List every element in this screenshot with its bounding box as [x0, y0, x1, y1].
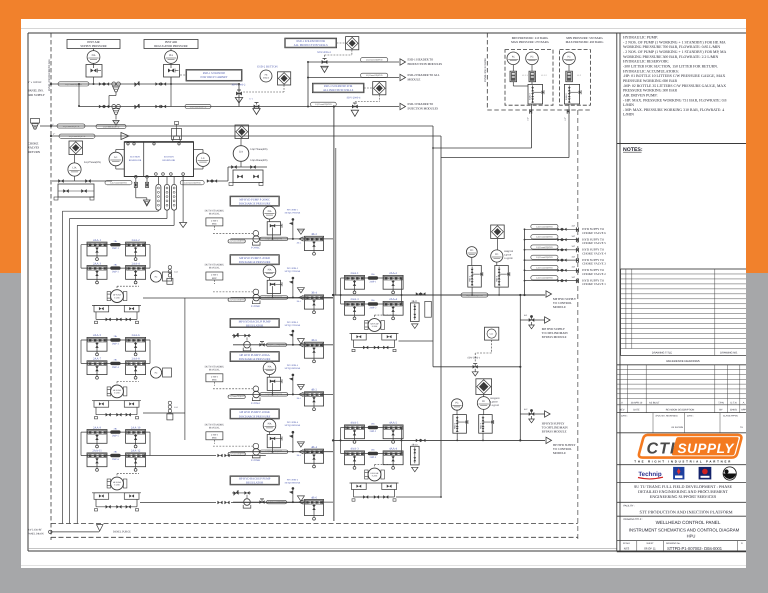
svg-text:L2(25mmOD)HYD: L2(25mmOD)HYD	[268, 501, 285, 504]
svg-text:3/4": 3/4"	[572, 225, 576, 228]
svg-text:CHOKE VALVE 1: CHOKE VALVE 1	[582, 282, 606, 286]
svg-text:REFERENCE DRAWINGS: REFERENCE DRAWINGS	[666, 359, 699, 363]
svg-text:AS SHOWN: AS SHOWN	[671, 426, 683, 429]
svg-text:REGULATOR: REGULATOR	[246, 323, 263, 327]
svg-text:L/MIN: L/MIN	[623, 113, 634, 117]
svg-text:2B-1: 2B-1	[297, 241, 301, 244]
svg-text:LL@520: LL@520	[491, 404, 500, 407]
svg-text:RETURN: RETURN	[28, 150, 41, 154]
svg-text:HYDRAULIC ACCUMULATORS:: HYDRAULIC ACCUMULATORS:	[623, 69, 679, 73]
svg-text:PANEL ENCLOSURE: PANEL ENCLOSURE	[484, 58, 487, 82]
svg-text:ESD-1 SOLENOID: ESD-1 SOLENOID	[203, 72, 225, 75]
svg-text:MODULE: MODULE	[408, 77, 421, 81]
svg-text:C4-1: C4-1	[174, 270, 178, 273]
svg-text:2Rs: 2Rs	[114, 263, 118, 266]
svg-text:MANUAL: MANUAL	[209, 213, 220, 216]
svg-text:REVISION DESCRIPTION: REVISION DESCRIPTION	[666, 409, 695, 412]
svg-text:2Rs: 2Rs	[114, 451, 118, 454]
svg-text:L-HS-2: L-HS-2	[211, 274, 219, 277]
svg-text:2AA-4: 2AA-4	[132, 261, 141, 265]
svg-text:L2(25mmOD)HYD: L2(25mmOD)HYD	[110, 182, 127, 185]
svg-text:2Rs: 2Rs	[371, 299, 375, 302]
svg-text:MANUAL: MANUAL	[209, 368, 220, 371]
svg-text:WELLHEAD CONTROL PANEL: WELLHEAD CONTROL PANEL	[656, 520, 721, 525]
svg-text:NTS: NTS	[624, 547, 630, 551]
svg-text:PSV-2006-2: PSV-2006-2	[287, 267, 299, 270]
svg-text:HYDRAULIC PUMP:: HYDRAULIC PUMP:	[623, 36, 658, 40]
svg-text:ESD-2 BUTTON: ESD-2 BUTTON	[257, 64, 278, 68]
svg-text:CLASS APPVD: CLASS APPVD	[723, 415, 738, 418]
svg-text:L2(25mmOD)HYD: L2(25mmOD)HYD	[366, 74, 383, 77]
svg-text:RESERVOIR: RESERVOIR	[129, 159, 142, 162]
svg-text:MAX PRESSURE: 270 BARG: MAX PRESSURE: 270 BARG	[511, 40, 550, 44]
svg-text:L6(140mm(ED): L6(140mm(ED)	[251, 159, 268, 162]
svg-text:2AA-1: 2AA-1	[93, 238, 102, 242]
svg-text:WORKING PRESSURE 700 BAR, FLOW: WORKING PRESSURE 700 BAR, FLOWRATE: 0.85…	[623, 45, 720, 49]
svg-text:SUPPLY: SUPPLY	[678, 441, 736, 456]
svg-text:BLK-3: BLK-3	[529, 92, 532, 99]
svg-text:PIA: PIA	[169, 54, 173, 57]
svg-text:2Rs: 2Rs	[114, 427, 118, 430]
svg-text:FACILITY :: FACILITY :	[624, 504, 636, 507]
svg-text:3/4": 3/4"	[572, 255, 576, 258]
svg-text:4AA-2: 4AA-2	[389, 421, 398, 425]
svg-text:PG: PG	[482, 400, 485, 403]
svg-text:L2(25mmOD)HYD: L2(25mmOD)HYD	[228, 240, 245, 243]
svg-text:SET@ 690 BAR: SET@ 690 BAR	[285, 481, 301, 484]
svg-text:2AA-12: 2AA-12	[131, 449, 141, 453]
svg-text:2AA-9: 2AA-9	[93, 425, 102, 429]
svg-text:SHEET: SHEET	[646, 542, 654, 545]
svg-text:T.P.N: T.P.N	[718, 402, 724, 405]
svg-text:PSV-2006-4: PSV-2006-4	[287, 478, 299, 481]
svg-text:HYDRAULIC RESERVOIR:: HYDRAULIC RESERVOIR:	[623, 60, 669, 64]
svg-text:CHOKE VALVE 6: CHOKE VALVE 6	[582, 231, 606, 235]
svg-text:DRAWING TITLE :: DRAWING TITLE :	[624, 518, 644, 521]
svg-text:DRAWING NO.: DRAWING NO.	[720, 351, 738, 354]
svg-text:L-HS-2: L-HS-2	[211, 433, 219, 436]
svg-text:2MP-1: 2MP-1	[369, 281, 377, 284]
svg-text:CHK'D: CHK'D	[730, 409, 738, 412]
svg-text:PG: PG	[567, 56, 570, 59]
svg-text:PANEL PURGE: PANEL PURGE	[113, 531, 131, 534]
svg-text:AIR SUPPLY: AIR SUPPLY	[28, 93, 46, 97]
svg-text:BYPASS MODULE: BYPASS MODULE	[542, 335, 567, 339]
svg-text:3B-2: 3B-2	[311, 232, 317, 236]
svg-text:- 2 NOS. OF PUMP (1 WORKING +: - 2 NOS. OF PUMP (1 WORKING + 1 STANDBY)…	[623, 50, 727, 54]
svg-text:2AA-5: 2AA-5	[93, 333, 102, 337]
svg-text:HPU: HPU	[687, 533, 696, 538]
svg-text:P-2006A: P-2006A	[251, 402, 260, 405]
svg-text:BLK-5: BLK-5	[565, 92, 568, 99]
svg-text:2HP-3: 2HP-3	[370, 456, 377, 459]
svg-text:INJECTION MODULES: INJECTION MODULES	[408, 106, 439, 110]
svg-text:PIA: PIA	[268, 365, 272, 368]
svg-text:3/4": 3/4"	[572, 266, 576, 269]
svg-text:BYPASS MODULE: BYPASS MODULE	[542, 430, 567, 434]
svg-text:SUPPLY PRESSURE: SUPPLY PRESSURE	[80, 44, 107, 48]
svg-text:L2(25mmOD)HYD: L2(25mmOD)HYD	[228, 395, 245, 398]
svg-text:TT-1-2: TT-1-2	[541, 74, 547, 77]
svg-text:MODULE: MODULE	[553, 305, 566, 309]
svg-text:CHOKE VALVE 2: CHOKE VALVE 2	[582, 272, 606, 276]
svg-text:P-2006: P-2006	[114, 392, 120, 395]
svg-text:3/4": 3/4"	[572, 235, 576, 238]
svg-text:LG: LG	[114, 156, 117, 159]
svg-text:DRAWING No.: DRAWING No.	[666, 542, 681, 545]
svg-text:ALL PRODUCTION WELLS: ALL PRODUCTION WELLS	[294, 44, 328, 47]
svg-text:2MP-6: 2MP-6	[112, 458, 120, 461]
svg-text:L2(25mmOD)HYD: L2(25mmOD)HYD	[228, 453, 245, 456]
svg-text:(PDC NO. REVIEWED: (PDC NO. REVIEWED	[656, 415, 679, 418]
svg-text:P-2006: P-2006	[114, 296, 120, 299]
svg-text:1/2": 1/2"	[527, 117, 530, 121]
svg-text:ESD-1 SOLENOID FOR: ESD-1 SOLENOID FOR	[296, 40, 325, 43]
svg-text:P-2006B: P-2006B	[251, 459, 260, 462]
svg-text:L2(25mmOD)HYD: L2(25mmOD)HYD	[268, 343, 285, 346]
svg-text:PIA: PIA	[92, 54, 96, 57]
svg-text:2Rs: 2Rs	[371, 273, 375, 276]
svg-text:2AA-4: 2AA-4	[389, 297, 398, 301]
svg-text:TH: TH	[740, 426, 743, 429]
svg-text:DISCHARGE PRESSURE: DISCHARGE PRESSURE	[239, 260, 271, 264]
svg-text:L2(25mmOD)HYD: L2(25mmOD)HYD	[315, 103, 332, 106]
svg-text:SUCTION: SUCTION	[164, 156, 174, 159]
svg-text:2MP-2: 2MP-2	[369, 307, 377, 310]
svg-text:L6(175mm(ED): L6(175mm(ED)	[251, 148, 268, 151]
svg-text:2Rs: 2Rs	[114, 240, 118, 243]
svg-text:MP PUMP: MP PUMP	[113, 389, 121, 392]
svg-text:PRODUCTION MODULES: PRODUCTION MODULES	[408, 62, 443, 66]
svg-text:7SK-7: 7SK-7	[479, 422, 482, 429]
svg-text:2AA-8: 2AA-8	[132, 357, 141, 361]
svg-text:2Rs: 2Rs	[371, 449, 375, 452]
svg-text:2AA-3: 2AA-3	[350, 297, 359, 301]
svg-text:4B-10: 4B-10	[412, 443, 419, 446]
svg-text:PSV-2006-5: PSV-2006-5	[287, 364, 299, 367]
svg-text:L2(25mmOD)HYD: L2(25mmOD)HYD	[536, 266, 553, 269]
svg-text:2AA-6: 2AA-6	[132, 333, 141, 337]
svg-text:SET@ 270 BAR: SET@ 270 BAR	[285, 324, 301, 327]
svg-text:LIA: LIA	[73, 167, 77, 170]
svg-text:REV: REV	[620, 409, 625, 412]
svg-text:2AA-2: 2AA-2	[132, 238, 141, 242]
svg-text:PIA: PIA	[268, 210, 272, 213]
svg-text:TT-2: TT-2	[577, 74, 581, 77]
svg-text:CTI: CTI	[647, 441, 676, 458]
svg-text:SET@ 270 BAR: SET@ 270 BAR	[285, 211, 301, 214]
svg-text:LL@200: LL@200	[504, 257, 513, 260]
svg-text:MCC: MCC	[212, 437, 218, 440]
svg-text:-MP: 02 BOTTLE 35 LITTERS C/W: -MP: 02 BOTTLE 35 LITTERS C/W PRESSURE G…	[623, 84, 726, 88]
svg-text:SDV-2006-1: SDV-2006-1	[467, 357, 480, 360]
svg-text:DATE :: DATE :	[687, 415, 694, 418]
svg-text:3B-11: 3B-11	[412, 300, 419, 303]
svg-text:HP PUMP: HP PUMP	[371, 472, 379, 475]
svg-text:PG: PG	[155, 276, 158, 279]
svg-text:BY: BY	[719, 409, 723, 412]
svg-text:2HP-2: 2HP-2	[370, 430, 377, 433]
svg-text:SET@ 270 BAR: SET@ 270 BAR	[285, 270, 301, 273]
svg-text:L2(25mmOD)HYD: L2(25mmOD)HYD	[266, 393, 283, 396]
svg-text:1/2": 1/2"	[564, 117, 567, 121]
svg-text:SET@ 690 BAR: SET@ 690 BAR	[285, 367, 301, 370]
svg-text:PSV-2006-1: PSV-2006-1	[287, 208, 299, 211]
svg-text:MANUAL: MANUAL	[209, 267, 220, 270]
svg-text:2Rs: 2Rs	[114, 359, 118, 362]
svg-text:D.T.N: D.T.N	[731, 402, 737, 405]
svg-text:PG: PG	[512, 56, 515, 59]
svg-text:SDV-2006-3: SDV-2006-3	[317, 51, 331, 54]
svg-text:L-HS-2: L-HS-2	[211, 219, 219, 222]
svg-text:PSV-2006-3: PSV-2006-3	[287, 321, 299, 324]
svg-text:3/4": 3/4"	[572, 276, 576, 279]
svg-text:7SK-6: 7SK-6	[454, 422, 457, 429]
svg-text:ESD-3 SOLENOID FOR: ESD-3 SOLENOID FOR	[324, 85, 353, 88]
svg-text:L2(25mmOD)HYD: L2(25mmOD)HYD	[266, 296, 283, 299]
svg-text:LIA: LIA	[239, 151, 243, 154]
svg-text:7SK-5: 7SK-5	[495, 275, 498, 282]
svg-text:PRESSURE WORKING 690 BAR: PRESSURE WORKING 690 BAR	[623, 79, 678, 83]
svg-text:L2(25mmOD)HYD: L2(25mmOD)HYD	[536, 256, 553, 259]
svg-text:DRAWING TITLE: DRAWING TITLE	[652, 351, 672, 354]
svg-text:-HP: 01 BOTTLE 10 LITTERS C/W: -HP: 01 BOTTLE 10 LITTERS C/W PRESSURE G…	[623, 74, 726, 78]
svg-text:CHOKE VALVE 4: CHOKE VALVE 4	[582, 251, 606, 255]
svg-text:1": 1"	[53, 133, 55, 136]
svg-text:L2(25mmOD)HYD: L2(25mmOD)HYD	[266, 450, 283, 453]
svg-text:AS BUILT: AS BUILT	[649, 402, 660, 405]
svg-text:CHOKE VALVE 5: CHOKE VALVE 5	[582, 241, 606, 245]
svg-text:3/4": 3/4"	[572, 245, 576, 248]
svg-text:28 APR 10: 28 APR 10	[631, 402, 643, 405]
svg-text:L2(25mmOD)HYD: L2(25mmOD)HYD	[63, 125, 80, 128]
svg-text:SCALE: SCALE	[623, 542, 631, 545]
svg-text:4AA-4: 4AA-4	[389, 447, 398, 451]
svg-text:3B-6: 3B-6	[311, 338, 317, 342]
svg-text:L2(25mmOD)HYD: L2(25mmOD)HYD	[69, 135, 86, 138]
svg-text:PIA: PIA	[268, 269, 272, 272]
svg-text:APP: APP	[741, 409, 746, 412]
svg-text:2AA-7: 2AA-7	[93, 357, 102, 361]
svg-text:TT-1-1: TT-1-1	[522, 74, 528, 77]
svg-text:R-1: R-1	[524, 314, 527, 317]
svg-text:DATE :: DATE :	[621, 415, 628, 418]
svg-text:MCC: MCC	[212, 379, 218, 382]
svg-text:2B-1: 2B-1	[297, 397, 301, 400]
svg-text:L@530: L@530	[491, 401, 499, 404]
svg-text:PG: PG	[495, 253, 498, 256]
svg-text:P-2006D: P-2006D	[251, 305, 260, 308]
svg-text:DISCHARGE PRESSURE: DISCHARGE PRESSURE	[239, 202, 271, 206]
svg-text:3/4"L1500 RF: 3/4"L1500 RF	[28, 529, 42, 532]
svg-text:2MP-4: 2MP-4	[112, 366, 120, 369]
svg-text:L/MIN: L/MIN	[623, 103, 634, 107]
svg-text:SET@ 690 BAR: SET@ 690 BAR	[285, 424, 301, 427]
svg-text:L2(25mmOD)HYD: L2(25mmOD)HYD	[103, 125, 120, 128]
svg-text:PIA: PIA	[268, 423, 272, 426]
svg-text:C4-1: C4-1	[174, 406, 178, 409]
svg-text:L@210: L@210	[504, 254, 512, 257]
svg-text:-300 LITTER FOR SUCTION, 150 L: -300 LITTER FOR SUCTION, 150 LITTER FOR …	[623, 65, 718, 69]
svg-text:REGULATOR: REGULATOR	[246, 481, 263, 485]
svg-text:P-2006: P-2006	[114, 484, 120, 487]
svg-text:PANEL DRAIN: PANEL DRAIN	[28, 533, 44, 536]
svg-text:2AA-11: 2AA-11	[92, 449, 102, 453]
svg-text:MCC: MCC	[212, 223, 218, 226]
svg-text:4AA-3: 4AA-3	[350, 447, 359, 451]
svg-text:STTFD-P1-007002- D08-0001: STTFD-P1-007002- D08-0001	[667, 546, 723, 551]
svg-text:2MP-1: 2MP-1	[112, 247, 120, 250]
svg-text:ALL INJECTION WELLS: ALL INJECTION WELLS	[323, 89, 354, 92]
svg-text:L-HS-2: L-HS-2	[211, 375, 219, 378]
svg-text:1" x 1500 RF: 1" x 1500 RF	[28, 81, 42, 84]
svg-text:CHOKE VALVE 3: CHOKE VALVE 3	[582, 262, 606, 266]
svg-text:INSTRUMENT SCHEMATICS AND C: INSTRUMENT SCHEMATICS AND CONTROL DIAGRA…	[629, 528, 740, 533]
svg-text:7SK-4: 7SK-4	[468, 275, 471, 282]
svg-text:2Rs: 2Rs	[114, 335, 118, 338]
svg-text:2AA-10: 2AA-10	[131, 425, 141, 429]
svg-text:Technip: Technip	[638, 471, 661, 478]
svg-text:ESD-2: ESD-2	[263, 76, 269, 79]
svg-text:2MP-5: 2MP-5	[112, 435, 120, 438]
svg-text:THE RIGHT INDUSTRIAL PARTNER: THE RIGHT INDUSTRIAL PARTNER	[634, 460, 731, 464]
svg-text:L2(25mmOD)HYD: L2(25mmOD)HYD	[190, 105, 207, 108]
svg-text:2Rs: 2Rs	[371, 423, 375, 426]
svg-text:L2(25mmOD)HYD: L2(25mmOD)HYD	[366, 59, 383, 62]
svg-text:2MP-3: 2MP-3	[112, 343, 120, 346]
svg-text:2AA-2: 2AA-2	[389, 271, 398, 275]
svg-text:2B-1: 2B-1	[297, 300, 301, 303]
svg-text:REGULATOR PRESSURE: REGULATOR PRESSURE	[154, 44, 188, 48]
svg-text:SUCTION: SUCTION	[130, 156, 140, 159]
svg-text:4B-6: 4B-6	[311, 495, 317, 499]
svg-text:MP PUMP: MP PUMP	[113, 294, 121, 297]
svg-text:PANEL (INSTRUMENT AIR): PANEL (INSTRUMENT AIR)	[48, 59, 51, 91]
svg-text:L2(25mmOD)HYD: L2(25mmOD)HYD	[184, 182, 201, 185]
svg-text:AIR DRIVEN PUMP:: AIR DRIVEN PUMP:	[623, 93, 658, 97]
svg-text:MP PUMP: MP PUMP	[113, 481, 121, 484]
svg-text:4B-2: 4B-2	[311, 388, 317, 392]
svg-text:PRESSURE WORKING 300 BAR: PRESSURE WORKING 300 BAR	[623, 89, 678, 93]
svg-text:DISCHARGE PRESSURE: DISCHARGE PRESSURE	[239, 357, 271, 361]
svg-text:- HP: MAX. PRESSURE WORKING 73: - HP: MAX. PRESSURE WORKING 731 BAR, FLO…	[623, 98, 726, 102]
svg-text:L2(25mmOD)HYD: L2(25mmOD)HYD	[536, 246, 553, 249]
svg-text:- MP: MAX. PRESSURE WORKING 31: - MP: MAX. PRESSURE WORKING 310 BAR, FLO…	[623, 108, 724, 112]
svg-text:PG: PG	[470, 249, 473, 252]
svg-text:MAX PRESSURE: 490 BARG: MAX PRESSURE: 490 BARG	[566, 40, 605, 44]
svg-text:DISCHARGE PRESSURE: DISCHARGE PRESSURE	[239, 414, 271, 418]
svg-text:L6(175mm(EX): L6(175mm(EX)	[84, 161, 101, 164]
svg-text:STT PRODUCTION AND INJECTION P: STT PRODUCTION AND INJECTION PLATFORM	[639, 509, 732, 514]
svg-text:PG: PG	[155, 372, 158, 375]
svg-text:P-2006C: P-2006C	[251, 246, 260, 249]
svg-text:MODULE: MODULE	[553, 451, 566, 455]
svg-text:P-2006: P-2006	[372, 475, 378, 478]
svg-text:06 OF 11: 06 OF 11	[644, 547, 656, 551]
svg-text:2B-1: 2B-1	[297, 454, 301, 457]
svg-text:LG: LG	[201, 157, 204, 160]
svg-text:FOR WHCP CABINET: FOR WHCP CABINET	[201, 76, 228, 79]
svg-text:HH@230: HH@230	[504, 250, 514, 253]
svg-text:HH@630: HH@630	[491, 397, 501, 400]
svg-text:2MP-2: 2MP-2	[112, 271, 120, 274]
svg-text:- 2 NOS. OF PUMP (1 WORKING +: - 2 NOS. OF PUMP (1 WORKING + 1 STANDBY)…	[623, 40, 726, 44]
svg-text:L2(25mmOD)HYD: L2(25mmOD)HYD	[228, 298, 245, 301]
svg-text:L2(25mmOD)HYD: L2(25mmOD)HYD	[536, 277, 553, 280]
svg-text:PG: PG	[530, 56, 533, 59]
svg-text:2AA-1: 2AA-1	[350, 271, 359, 275]
svg-text:WORKING PRESSURE 300 BAR, FLOW: WORKING PRESSURE 300 BAR, FLOWRATE: 2.2 …	[623, 55, 718, 59]
svg-text:4B-4: 4B-4	[311, 445, 317, 449]
svg-text:L2(25mmOD)HYD: L2(25mmOD)HYD	[536, 225, 553, 228]
svg-text:DATE: DATE	[633, 409, 640, 412]
svg-text:R-2: R-2	[524, 408, 527, 411]
svg-text:MANUAL: MANUAL	[209, 426, 220, 429]
svg-text:MP PUMP: MP PUMP	[370, 323, 378, 326]
svg-text:ENGINEERING SUPPORT SERVICES: ENGINEERING SUPPORT SERVICES	[650, 494, 717, 499]
svg-text:L2(25mmOD)HYD: L2(25mmOD)HYD	[536, 236, 553, 239]
svg-text:P-2006: P-2006	[372, 325, 378, 328]
svg-text:2AA-3: 2AA-3	[93, 261, 102, 265]
svg-text:PSV-2006-6: PSV-2006-6	[287, 421, 299, 424]
svg-text:MCC: MCC	[212, 277, 218, 280]
svg-text:SDV-2006-4: SDV-2006-4	[347, 96, 361, 99]
svg-text:PG: PG	[455, 402, 458, 405]
svg-text:RESERVOIR: RESERVOIR	[163, 159, 176, 162]
svg-text:3B-4: 3B-4	[311, 291, 317, 295]
svg-text:L2(25mmOD)HYD: L2(25mmOD)HYD	[266, 237, 283, 240]
svg-text:L2(25mmOD)HYD: L2(25mmOD)HYD	[466, 294, 483, 297]
svg-text:4AA-1: 4AA-1	[350, 421, 359, 425]
